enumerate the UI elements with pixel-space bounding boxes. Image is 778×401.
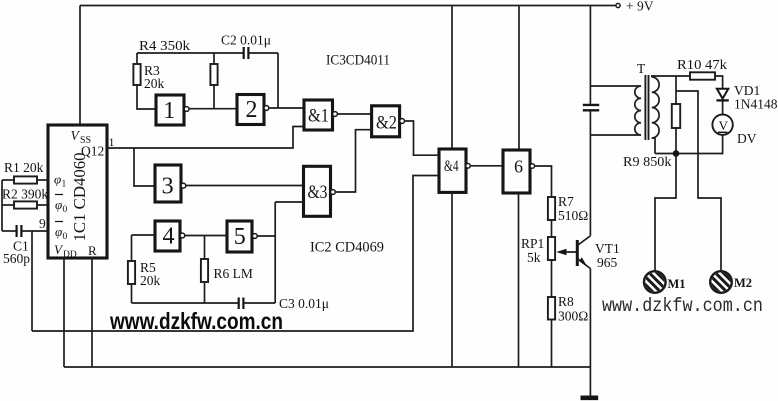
wire feedback bus to &4 lower input xyxy=(32,176,439,332)
resistor R5 xyxy=(131,235,133,261)
wire &4 bottom to ground rail xyxy=(451,192,453,367)
wire left feedback vertical xyxy=(1,180,3,231)
svg-text:1: 1 xyxy=(62,180,67,190)
node A junction dot xyxy=(673,150,680,157)
wire gate2 to &1 xyxy=(269,107,304,109)
wire C2 down to gate2 output xyxy=(277,53,279,108)
wire secondary bottom down xyxy=(652,138,655,154)
gate 5 xyxy=(227,221,252,252)
svg-text:φ: φ xyxy=(54,172,61,187)
resistor R7 xyxy=(548,197,555,220)
wire gate6 bottom to ground rail xyxy=(518,193,520,367)
svg-text:T: T xyxy=(637,61,646,76)
wire R pin down to ground rail xyxy=(91,258,93,367)
gate &1 xyxy=(304,100,333,130)
wire rail down to gate 6 top xyxy=(518,6,520,151)
wire &3 output up to &2 lower input xyxy=(335,130,371,192)
capacitor across transformer primary xyxy=(583,105,599,110)
transistor VT1 xyxy=(576,240,579,266)
node +9V terminal xyxy=(616,3,620,7)
wire diode to meter xyxy=(722,102,724,115)
label phi0bar pin 9 xyxy=(55,221,63,223)
motor M2 xyxy=(707,268,753,297)
gate 1 xyxy=(156,95,184,125)
wire capacitor to collector node xyxy=(589,112,591,236)
wire secondary top to R10 xyxy=(652,76,690,77)
svg-text:1: 1 xyxy=(109,135,115,149)
svg-text:0: 0 xyxy=(63,205,68,215)
svg-text:5: 5 xyxy=(234,224,246,250)
wire Q12 output to &1 input xyxy=(107,127,304,149)
svg-text:V: V xyxy=(719,118,729,133)
wire Q12 branch to gate 3 input xyxy=(134,148,155,186)
resistor R10 xyxy=(690,72,715,79)
svg-text:VT1: VT1 xyxy=(595,241,620,256)
svg-text:0: 0 xyxy=(63,232,68,242)
wire C1 node down to feedback bus xyxy=(31,231,33,331)
wire &2 output to &4 upper input xyxy=(405,121,440,155)
svg-text:6: 6 xyxy=(514,157,523,177)
svg-text:φ: φ xyxy=(55,224,62,239)
motor M1 xyxy=(640,268,685,297)
svg-text:&3: &3 xyxy=(308,182,328,203)
svg-text:&4: &4 xyxy=(444,158,459,175)
wire RC bottom bus xyxy=(132,302,239,304)
svg-text:1: 1 xyxy=(163,98,175,124)
svg-text:1C1 CD4060: 1C1 CD4060 xyxy=(70,152,89,241)
ground xyxy=(589,367,591,396)
svg-text:20k: 20k xyxy=(144,76,165,91)
svg-text:DV: DV xyxy=(737,131,757,146)
potentiometer RP1 xyxy=(548,237,555,260)
svg-text:20k: 20k xyxy=(140,273,161,288)
svg-text:M2: M2 xyxy=(734,276,752,290)
svg-text:965: 965 xyxy=(597,255,618,270)
wiper arrow RP1 to base xyxy=(560,251,577,253)
label phi0bar pin xyxy=(55,194,63,196)
svg-text:C3 0.01μ: C3 0.01μ xyxy=(279,296,329,311)
svg-text:DD: DD xyxy=(63,250,77,260)
svg-text:510Ω: 510Ω xyxy=(558,208,588,223)
svg-text:M1: M1 xyxy=(668,277,686,291)
voltmeter DV xyxy=(712,115,732,135)
svg-text:R2 390k: R2 390k xyxy=(2,187,48,202)
wire secondary top node to M2 xyxy=(676,91,721,271)
svg-text:R7: R7 xyxy=(558,194,574,209)
resistor R3 xyxy=(136,53,138,64)
wire emitter to ground rail xyxy=(589,269,591,368)
wire RP1 to R8 xyxy=(551,260,553,297)
svg-text:IC2 CD4069: IC2 CD4069 xyxy=(310,240,384,256)
gate &2 xyxy=(372,106,400,137)
gate &3 xyxy=(304,166,331,216)
wire primary bottom xyxy=(590,134,641,136)
wire gate3 to &3 xyxy=(186,185,304,187)
svg-text:C2 0.01μ: C2 0.01μ xyxy=(221,33,271,48)
svg-text:&2: &2 xyxy=(376,113,397,134)
svg-text:RP1: RP1 xyxy=(521,236,544,251)
transformer T secondary winding xyxy=(652,77,659,138)
wire rail down to gate &4 top xyxy=(451,6,453,150)
wire gate4 input xyxy=(132,234,156,236)
resistor R2 xyxy=(2,204,14,206)
svg-text:300Ω: 300Ω xyxy=(558,309,588,324)
resistor R9 xyxy=(675,76,677,104)
wire R10 to diode xyxy=(715,76,723,88)
IC1 CD4060 xyxy=(48,125,107,258)
wire gate5 output xyxy=(257,235,275,237)
svg-text:4: 4 xyxy=(163,224,175,250)
transformer T primary winding xyxy=(635,86,641,135)
wire node A down to M1 xyxy=(655,154,676,272)
resistor R6 xyxy=(204,236,206,260)
svg-text:R: R xyxy=(88,243,97,258)
svg-text:5k: 5k xyxy=(527,250,541,265)
diode VD1 xyxy=(717,89,728,99)
wire RC top bus xyxy=(137,52,243,54)
svg-text:R4 350k: R4 350k xyxy=(139,38,190,53)
gate 6 xyxy=(503,150,530,193)
wire gate4 to gate5 xyxy=(185,235,227,237)
wire R7 to RP1 xyxy=(551,220,553,237)
wire rail down to tank capacitor xyxy=(589,6,591,104)
wire VDD down to ground rail xyxy=(63,258,65,367)
gate 2 xyxy=(237,95,264,125)
resistor R8 xyxy=(548,297,555,320)
svg-text:2: 2 xyxy=(246,97,258,123)
gate 3 xyxy=(155,165,181,202)
svg-text:1N4148: 1N4148 xyxy=(734,97,778,112)
wire gate1 to gate2 xyxy=(189,108,237,110)
svg-text:&1: &1 xyxy=(308,106,329,127)
svg-text:www.dzkfw.com.cn: www.dzkfw.com.cn xyxy=(602,295,763,317)
svg-text:φ: φ xyxy=(55,197,62,212)
svg-text:3: 3 xyxy=(162,174,174,200)
wire meter down to node A xyxy=(655,135,723,154)
capacitor C2 xyxy=(244,47,249,59)
resistor R4 xyxy=(213,53,215,64)
wire primary top xyxy=(590,85,641,87)
wire rail down to IC1 Vss xyxy=(79,6,81,126)
wire +9V top rail xyxy=(80,5,615,7)
svg-text:560p: 560p xyxy=(3,251,30,266)
svg-text:www.dzkfw.com.cn: www.dzkfw.com.cn xyxy=(109,308,283,334)
svg-text:R8: R8 xyxy=(558,294,574,309)
transformer core xyxy=(645,75,648,140)
wire gate6 output to divider xyxy=(535,166,552,197)
capacitor C1 xyxy=(2,230,16,232)
gate 4 xyxy=(155,221,180,251)
svg-text:+ 9V: + 9V xyxy=(626,0,654,14)
svg-text:IC3CD4011: IC3CD4011 xyxy=(326,53,390,69)
resistor R1 xyxy=(2,179,14,181)
svg-text:R9 850k: R9 850k xyxy=(623,155,672,170)
svg-text:R10 47k: R10 47k xyxy=(677,58,727,73)
wire gate5 node up to &3 lower input and down to C3 xyxy=(275,202,303,303)
capacitor C3 xyxy=(239,298,244,310)
svg-text:9: 9 xyxy=(39,216,46,231)
svg-text:R6 LM: R6 LM xyxy=(214,266,253,281)
wire &4 to gate 6 xyxy=(470,165,503,167)
wire &1 to &2 xyxy=(337,113,371,115)
svg-text:R1 20k: R1 20k xyxy=(4,160,44,175)
wire bottom ground rail xyxy=(64,366,590,368)
wire R8 to ground rail xyxy=(551,320,553,368)
gate &4 xyxy=(439,149,466,192)
